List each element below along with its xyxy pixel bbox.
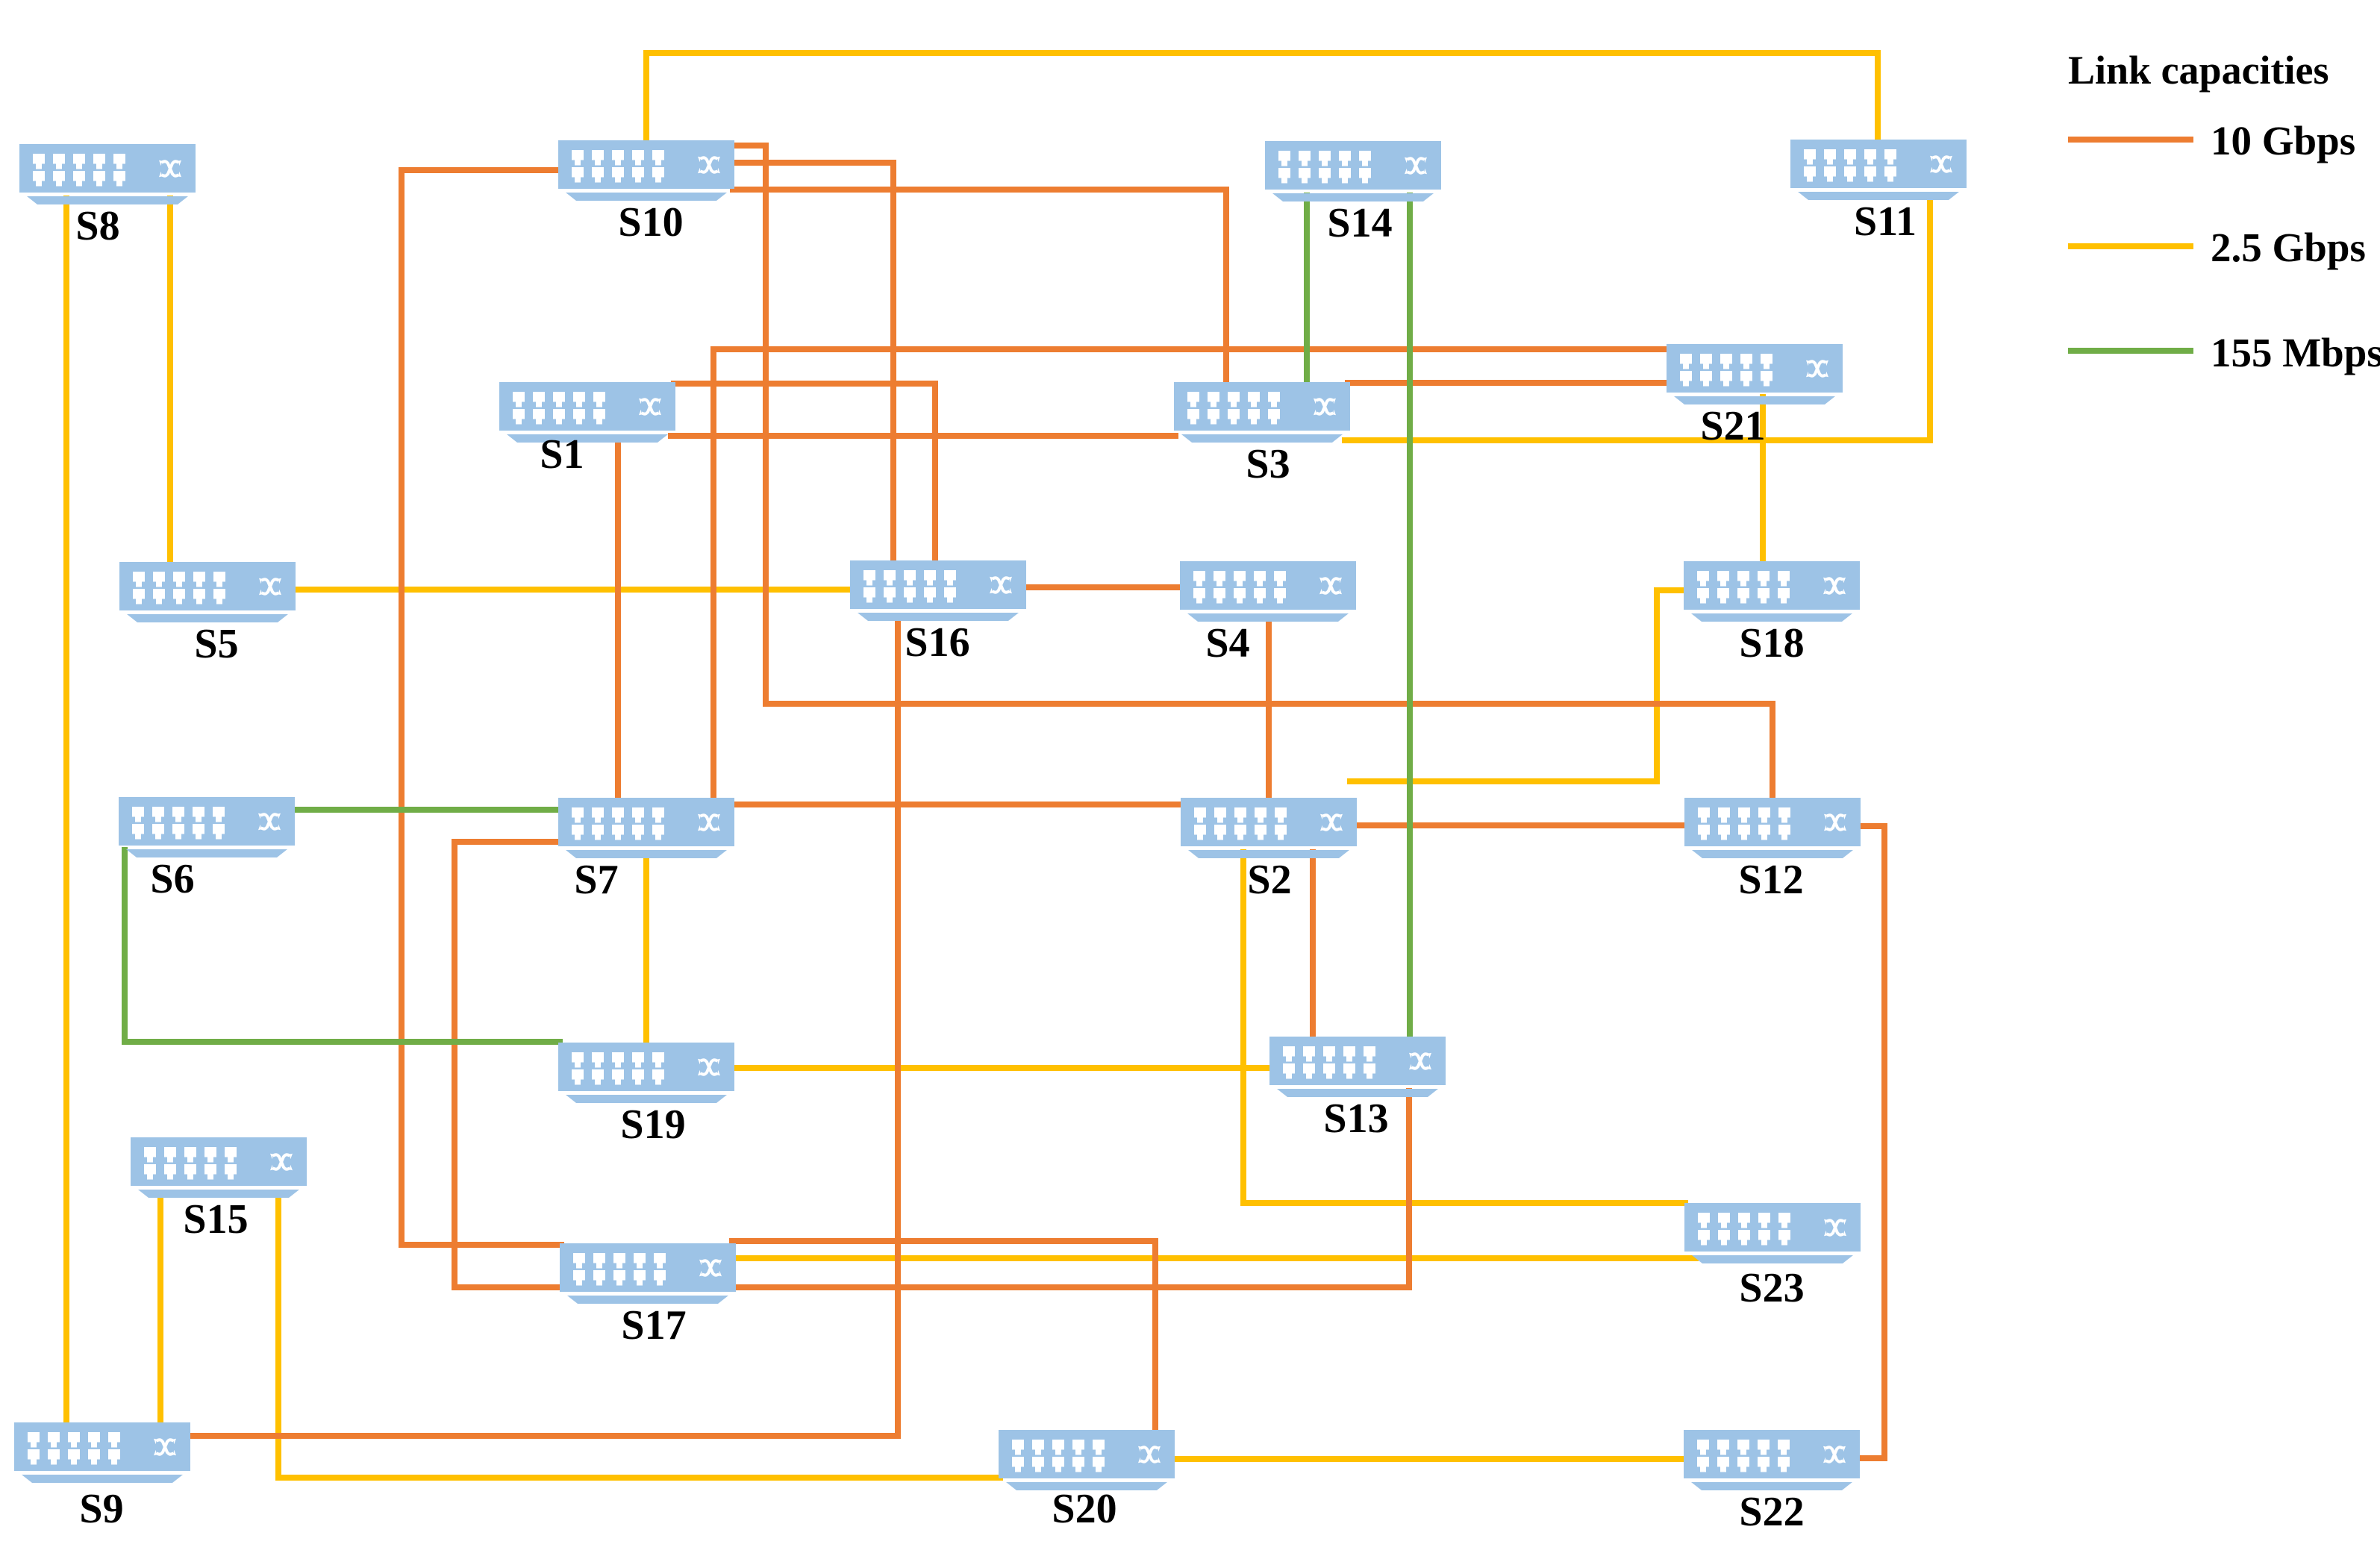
svg-text:10 Gbps: 10 Gbps (2211, 118, 2355, 163)
link S20-S22 (2.5 Gbps) (1170, 1456, 1688, 1462)
switch S21 (1667, 344, 1843, 449)
link S2-S23 (2.5 Gbps) (1243, 849, 1688, 1203)
legend 155 Mbps sample line (2068, 348, 2193, 354)
svg-text:S11: S11 (1854, 199, 1917, 245)
link S6-S7 (155 Mbps) (290, 807, 563, 813)
link S14-S13 (155 Mbps) (1407, 193, 1413, 1041)
link S10-S17 (10 Gbps) (402, 170, 564, 1245)
link S1-S7 (10 Gbps) (615, 437, 621, 802)
link S16-S9 (10 Gbps) (182, 613, 898, 1436)
svg-text:S16: S16 (905, 619, 969, 666)
svg-text:S18: S18 (1739, 620, 1804, 666)
switch S10 (558, 140, 734, 246)
link S7-S2 (10 Gbps) (730, 802, 1185, 807)
switch S8 (19, 144, 196, 249)
link S7-S19 (2.5 Gbps) (643, 854, 649, 1046)
link S2-S18 (2.5 Gbps) (1347, 590, 1688, 781)
svg-text:S19: S19 (620, 1102, 685, 1148)
link S10-S16 (10 Gbps) (730, 163, 893, 565)
switch S7 (558, 798, 734, 903)
switch S15 (131, 1137, 307, 1243)
link S1-S3 (10 Gbps) (668, 433, 1178, 439)
legend 2.5 Gbps sample line (2068, 243, 2193, 249)
switch S3 (1174, 382, 1350, 487)
switch S9 (14, 1422, 190, 1532)
svg-text:S8: S8 (75, 203, 119, 249)
link S10-S12 (10 Gbps) (730, 146, 1772, 802)
link S8-S9 (2.5 Gbps) (63, 196, 69, 1427)
link S3-S21 (10 Gbps) (1345, 380, 1671, 386)
svg-text:S23: S23 (1739, 1265, 1804, 1311)
svg-text:S7: S7 (574, 857, 618, 903)
svg-text:S17: S17 (621, 1302, 686, 1349)
svg-text:S20: S20 (1052, 1486, 1116, 1532)
link S15-S9 (2.5 Gbps) (157, 1191, 163, 1427)
link S2-S13 (10 Gbps) (1310, 849, 1316, 1041)
link S21-S18 (2.5 Gbps) (1760, 394, 1766, 566)
link S19-S13 (2.5 Gbps) (730, 1065, 1273, 1071)
svg-text:S12: S12 (1738, 857, 1803, 903)
svg-text:S5: S5 (194, 621, 238, 667)
svg-text:S9: S9 (79, 1486, 123, 1532)
switch S19 (558, 1043, 734, 1148)
link S6-S19 (155 Mbps) (125, 847, 563, 1042)
link S14-S3 (155 Mbps) (1304, 193, 1310, 387)
svg-text:S13: S13 (1323, 1096, 1388, 1142)
switch S18 (1684, 561, 1860, 666)
switch S2 (1181, 798, 1357, 903)
link S13-S17 (10 Gbps) (729, 1088, 1409, 1287)
svg-text:S15: S15 (183, 1196, 248, 1243)
switch S11 (1790, 140, 1967, 245)
svg-text:S21: S21 (1700, 403, 1765, 449)
switch S22 (1684, 1430, 1860, 1535)
link S3-S11 (2.5 Gbps) (1342, 194, 1930, 440)
link S2-S12 (10 Gbps) (1352, 822, 1689, 828)
svg-text:S2: S2 (1247, 857, 1291, 903)
link S10-S11 (2.5 Gbps) (646, 53, 1878, 143)
svg-text:S3: S3 (1246, 441, 1290, 487)
link S12-S22 (10 Gbps) (1855, 826, 1884, 1458)
svg-text:Link capacities: Link capacities (2068, 48, 2329, 93)
switch S5 (119, 562, 296, 667)
link S1-S16 (10 Gbps) (671, 384, 935, 565)
switch S13 (1269, 1037, 1446, 1142)
link S7-S17 (10 Gbps) (455, 842, 564, 1287)
switch S17 (560, 1243, 736, 1349)
svg-text:S22: S22 (1739, 1489, 1804, 1535)
link S21-S7 (10 Gbps) (713, 349, 1671, 802)
link S10-S3 (10 Gbps) (730, 190, 1226, 387)
link S16-S4 (10 Gbps) (1020, 584, 1184, 590)
svg-text:S10: S10 (618, 199, 683, 246)
svg-text:S6: S6 (150, 856, 194, 902)
svg-text:S4: S4 (1205, 620, 1249, 666)
link S5-S16 (2.5 Gbps) (293, 587, 855, 593)
switch S4 (1180, 561, 1356, 666)
link S8-S5 (2.5 Gbps) (167, 196, 173, 567)
legend 10 Gbps sample line (2068, 137, 2193, 143)
link S15-S20 (2.5 Gbps) (278, 1191, 1003, 1478)
link S4-S2 (10 Gbps) (1266, 613, 1272, 802)
switch S6 (119, 797, 295, 902)
switch S1 (499, 382, 675, 478)
switch S20 (999, 1430, 1175, 1532)
svg-text:2.5 Gbps: 2.5 Gbps (2211, 225, 2366, 270)
svg-text:155 Mbps: 155 Mbps (2211, 330, 2380, 375)
svg-text:S14: S14 (1327, 200, 1392, 246)
switch S14 (1265, 141, 1441, 246)
svg-text:S1: S1 (540, 431, 584, 478)
link S17-S23 (2.5 Gbps) (730, 1255, 1699, 1261)
switch S12 (1684, 798, 1861, 903)
switch S16 (850, 560, 1026, 666)
switch S23 (1684, 1203, 1861, 1311)
link S17-S20 (10 Gbps) (729, 1241, 1155, 1434)
